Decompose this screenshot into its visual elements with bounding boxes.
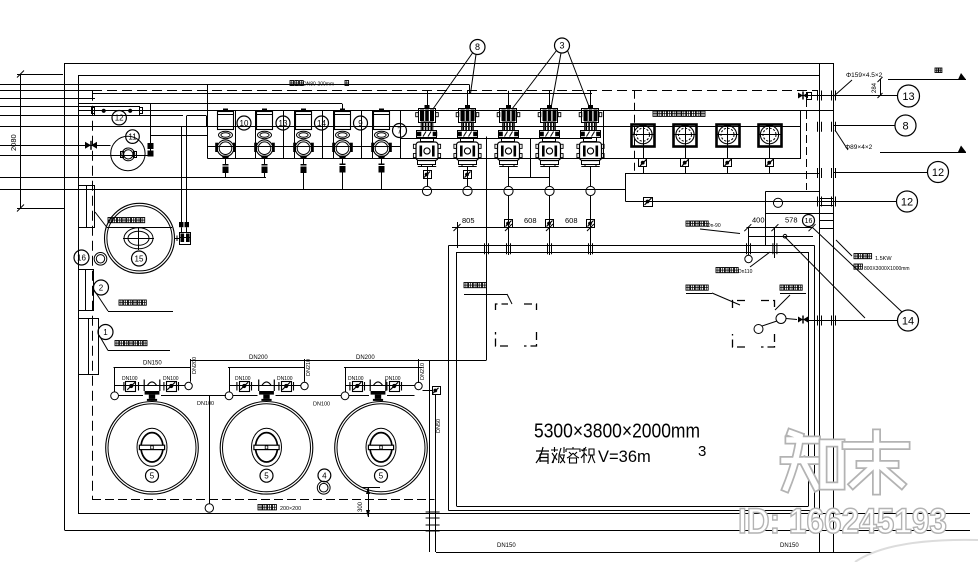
- callout 8 top: [433, 40, 485, 110]
- pump B5 joint: [586, 167, 595, 196]
- svg-text:5300×3800×2000mm: 5300×3800×2000mm: [534, 420, 700, 443]
- dashed enclosure bottom: [92, 499, 435, 501]
- header DN260: [344, 355, 423, 368]
- callout 13: [898, 85, 920, 107]
- pump B2 valve+joint: [463, 167, 472, 196]
- riser DN240: [419, 359, 427, 383]
- pump B3 riser: [505, 196, 513, 255]
- svg-text:15: 15: [135, 254, 144, 263]
- svg-text:Φ159×4.5×2: Φ159×4.5×2: [846, 72, 883, 79]
- pipe stub y145: [0, 145, 111, 147]
- UV inner assembly: [123, 227, 154, 250]
- svg-text:DN100: DN100: [348, 376, 364, 382]
- heat exchanger HX4: [758, 124, 782, 147]
- svg-text:2: 2: [99, 283, 104, 292]
- label circle 14a: [315, 116, 329, 130]
- supply pipe 1 text: [846, 72, 883, 79]
- overflow label: [716, 252, 770, 275]
- HX1 valve: [639, 146, 647, 174]
- dim 284: [872, 77, 883, 98]
- svg-text:Φ89×4×2: Φ89×4×2: [845, 144, 873, 151]
- callout 14: [898, 310, 919, 331]
- riser DN200: [191, 357, 199, 382]
- label circle 5-2: [260, 469, 273, 482]
- svg-text:DN100: DN100: [385, 376, 401, 382]
- svg-text:14: 14: [317, 119, 326, 128]
- inlet label: [686, 221, 740, 234]
- pump P2 drain: [260, 159, 269, 178]
- pipe row bottom y158.5: [208, 158, 801, 160]
- wall outer top: [64, 63, 834, 65]
- dim 300: [358, 487, 380, 517]
- pipe to callout 12a: [818, 168, 928, 178]
- pump B5 riser: [587, 196, 595, 255]
- dimension 2080 line: [9, 71, 24, 212]
- tank T1 lower run: [119, 395, 226, 397]
- leader 14-pit: [812, 227, 902, 312]
- UV feed valve 2: [185, 222, 190, 227]
- drain pipe right: [423, 387, 441, 553]
- svg-text:578: 578: [785, 216, 798, 225]
- svg-text:DN150: DN150: [143, 361, 162, 367]
- callout 3 top: [512, 38, 590, 109]
- pit right label: [686, 285, 740, 305]
- valve on y145: [85, 141, 97, 150]
- svg-text:12: 12: [115, 114, 124, 123]
- pump P3 drain: [299, 159, 308, 190]
- svg-text:DN100: DN100: [197, 401, 214, 407]
- svg-text:3: 3: [559, 41, 564, 51]
- UV feed vertical pair: [182, 116, 187, 222]
- UV sterilizer U15: [105, 203, 175, 273]
- pipe y93.5 feed: [92, 93, 592, 95]
- label circle 16b: [803, 215, 815, 227]
- wall outer bottom: [65, 530, 971, 532]
- pump B4 (vertical multistage): [536, 91, 563, 167]
- pipe to callout 14: [809, 316, 898, 326]
- svg-text:12: 12: [901, 196, 913, 208]
- heat exchanger HX1: [632, 124, 655, 147]
- leader pipe1: [834, 80, 852, 96]
- wall outer left: [64, 64, 66, 531]
- pump P4 drain: [338, 159, 347, 190]
- tank size text: [534, 420, 700, 443]
- drain texts bottom: [497, 543, 799, 549]
- supply pipe 2 text: [845, 144, 873, 151]
- bottom line dn150: [436, 552, 970, 554]
- dimension ext bottom: [17, 208, 65, 210]
- floor drain pair: [317, 481, 330, 494]
- pump P1 (small): [215, 109, 236, 159]
- suction pit right: [733, 301, 775, 348]
- pump row band verticals: [208, 111, 401, 159]
- drain collector y189: [0, 189, 626, 191]
- pump B3 (vertical multistage): [495, 91, 522, 167]
- wall inner left: [78, 75, 80, 514]
- label circle 1: [98, 325, 113, 340]
- manhole label: [775, 285, 806, 310]
- pipe to callout 13: [798, 91, 898, 101]
- svg-text:DN80-200mm: DN80-200mm: [303, 82, 334, 88]
- pipe jog y115.7-126.8: [187, 116, 207, 127]
- svg-text:5: 5: [264, 472, 269, 481]
- svg-text:7: 7: [397, 126, 402, 135]
- pipe stub y98: [0, 98, 95, 100]
- label circle 15: [132, 251, 147, 266]
- pipe manifold y127: [0, 126, 801, 128]
- label circle 5-1: [146, 469, 159, 482]
- watermark ID: [738, 502, 947, 541]
- water tank T2: [220, 402, 313, 495]
- wall right inner line: [833, 64, 835, 553]
- label circle 13a: [276, 116, 290, 130]
- label circle 10: [237, 116, 251, 130]
- svg-text:1.5KW: 1.5KW: [875, 256, 892, 262]
- pump B4 joint: [545, 167, 554, 196]
- svg-text:16: 16: [77, 253, 86, 262]
- svg-text:10: 10: [240, 119, 249, 128]
- svg-text:3: 3: [698, 443, 706, 460]
- svg-text:Dn-90: Dn-90: [707, 223, 721, 229]
- panel 2 label: [94, 290, 173, 312]
- label circle 4: [318, 469, 331, 482]
- panel box top: [79, 185, 95, 228]
- svg-text:800X3000X1000mm: 800X3000X1000mm: [864, 266, 910, 272]
- svg-text:DN210: DN210: [420, 363, 426, 380]
- supply arrow 2: [880, 146, 966, 153]
- label circle 12a: [112, 111, 126, 125]
- pipe y173: [626, 173, 820, 175]
- pump P5 (small): [371, 109, 392, 159]
- vertical x150 with valves: [148, 104, 154, 157]
- pipe to callout 8: [818, 122, 895, 132]
- pipe stub y116: [0, 115, 183, 117]
- drain sleeve bottom: [426, 512, 440, 531]
- tank fill pipe: [485, 137, 489, 361]
- svg-text:DN150: DN150: [780, 543, 799, 549]
- tank T2 lower run: [233, 395, 341, 397]
- squares band box: [604, 111, 801, 159]
- pump B2 (vertical multistage): [454, 91, 481, 167]
- foot valve assembly: [754, 314, 808, 334]
- HX2 valve: [681, 146, 689, 174]
- header DN200: [228, 355, 305, 368]
- svg-text:DN210: DN210: [306, 359, 312, 376]
- UV feed drop: [182, 227, 187, 232]
- svg-text:Dn110: Dn110: [738, 269, 753, 275]
- pump power label: [836, 240, 910, 272]
- header DN150: [114, 361, 191, 368]
- drain pipe T2: [197, 396, 214, 512]
- svg-text:DN100: DN100: [235, 376, 251, 382]
- pump B4 riser: [546, 196, 554, 255]
- flow meter M1: [92, 107, 143, 116]
- platform structure: [766, 191, 820, 246]
- tank T3 inlet assembly: [341, 367, 422, 401]
- svg-text:5: 5: [150, 472, 155, 481]
- svg-text:DN100: DN100: [313, 402, 330, 408]
- pump P1 drain: [221, 159, 230, 178]
- svg-text:DN100: DN100: [277, 376, 293, 382]
- pump P3 (small): [293, 109, 314, 159]
- overflow pipe right: [429, 361, 431, 552]
- label circle 16: [74, 250, 89, 265]
- svg-text:DN100: DN100: [122, 376, 138, 382]
- tank outer: [449, 246, 815, 511]
- watermark swoosh: [855, 540, 978, 562]
- text supply header: [290, 81, 349, 88]
- water tank T1: [106, 402, 199, 495]
- UV label leader: [95, 212, 172, 228]
- heat exchanger HX3: [716, 124, 740, 147]
- riser DN210: [305, 359, 313, 382]
- svg-text:13: 13: [902, 91, 914, 103]
- UV inlet fitting: [175, 233, 191, 245]
- pump B1 (vertical multistage): [413, 91, 440, 167]
- pipe y84.8 long: [0, 85, 470, 94]
- svg-text:14: 14: [902, 315, 914, 327]
- DN50 text: [436, 419, 442, 433]
- svg-text:DN100: DN100: [163, 376, 179, 382]
- pipe row suction y146.7: [208, 146, 401, 148]
- pump P5 drain: [377, 159, 386, 190]
- pump B1 valve+joint: [422, 167, 431, 196]
- svg-text:DN200: DN200: [192, 357, 198, 374]
- pipe bigpump suction y138.5: [400, 138, 592, 140]
- dashed enclosure top: [92, 90, 818, 92]
- svg-text:300: 300: [358, 501, 364, 512]
- tank inlet pipe: [745, 228, 813, 263]
- label circle 7: [393, 124, 407, 138]
- svg-text:400: 400: [752, 216, 765, 225]
- panel box 2: [79, 270, 94, 311]
- label circle 11: [126, 130, 140, 144]
- label circle 9: [354, 116, 368, 130]
- svg-text:2080: 2080: [9, 134, 18, 151]
- tank inner: [457, 252, 809, 507]
- svg-text:200×200: 200×200: [280, 506, 301, 512]
- callout 8 right: [895, 115, 916, 136]
- heat exchanger HX2: [674, 124, 697, 147]
- DN100 labels row: [122, 376, 401, 382]
- callout 12a: [928, 162, 949, 183]
- svg-text:5: 5: [379, 472, 384, 481]
- drain channel text: [258, 505, 301, 513]
- dashed enclosure left: [92, 91, 94, 499]
- callout 12b: [897, 191, 918, 212]
- svg-text:16: 16: [805, 218, 813, 225]
- dim line 805/608: [452, 216, 594, 248]
- supply arrow 1: [888, 68, 966, 80]
- pipe stub y106: [0, 106, 95, 108]
- pipe stub y156: [0, 155, 151, 157]
- panel box 1: [79, 319, 99, 375]
- svg-text:4: 4: [322, 471, 327, 480]
- watermark zhi-mo: [784, 433, 906, 491]
- pump P2 (small): [254, 109, 275, 159]
- label circle 2: [94, 280, 109, 295]
- svg-text:12: 12: [932, 167, 944, 179]
- svg-text:608: 608: [524, 216, 537, 225]
- HX3 valve: [724, 146, 732, 174]
- svg-text:13: 13: [279, 119, 288, 128]
- tank T2 inlet assembly: [225, 367, 308, 401]
- svg-text:9: 9: [358, 119, 363, 128]
- UV label text: [108, 218, 145, 223]
- tank T3 lower run: [349, 395, 415, 397]
- pipe vertical x625: [625, 173, 627, 202]
- pipe to callout 12b: [818, 197, 836, 207]
- wall ladder rungs: [820, 199, 834, 229]
- svg-text:284: 284: [872, 82, 878, 93]
- valve on y201: [644, 198, 653, 207]
- HX4 valve: [766, 146, 774, 174]
- wall right outer line: [819, 64, 821, 553]
- pipe y135 stub: [151, 135, 208, 137]
- svg-text:608: 608: [565, 216, 578, 225]
- svg-text:DN150: DN150: [497, 543, 516, 549]
- pipe stub y90: [0, 90, 92, 92]
- pipe y103.8: [78, 104, 343, 111]
- panel 1 label: [99, 335, 170, 351]
- squares band label: [653, 111, 705, 116]
- svg-text:8: 8: [475, 42, 480, 52]
- svg-text:ID: 166245193: ID: 166245193: [738, 502, 947, 541]
- svg-text:8: 8: [902, 120, 908, 132]
- dashed vertical x634: [634, 91, 636, 173]
- pump B5 (vertical multistage): [577, 91, 604, 167]
- dashed vertical x806: [806, 99, 808, 190]
- svg-text:DN50: DN50: [436, 419, 442, 433]
- small gauge pair: [94, 252, 107, 265]
- leader pipe2: [835, 130, 848, 150]
- svg-text:805: 805: [462, 216, 475, 225]
- pit left label: [464, 283, 512, 305]
- water tank T3: [335, 402, 428, 495]
- svg-text:V=36m: V=36m: [598, 448, 651, 466]
- drain collector y177: [0, 177, 266, 179]
- tank fill out: [0, 0, 1, 1]
- label circle 5-3: [375, 469, 388, 482]
- valve near wall 13: [798, 92, 812, 100]
- pump B3-B4 tie: [509, 139, 550, 178]
- pipe long y110.4: [78, 110, 834, 112]
- suction pit left: [496, 304, 537, 346]
- svg-text:1: 1: [103, 328, 108, 337]
- circulation pump P11: [111, 136, 145, 170]
- tank T1 inlet assembly: [111, 367, 193, 401]
- UV feed valve 1: [179, 222, 184, 227]
- label DN110 mid: [313, 402, 330, 408]
- dimension ext top: [17, 74, 63, 76]
- tank volume text: [536, 443, 706, 466]
- dim line 400/578: [744, 216, 815, 232]
- pump P4 (small): [332, 109, 353, 159]
- pipe y201: [626, 201, 897, 203]
- pump B3 joint: [504, 167, 513, 196]
- leader overflow-14: [785, 237, 865, 318]
- wall inner bottom: [78, 513, 970, 515]
- wall inner top: [78, 75, 820, 77]
- supply line y359: [190, 360, 487, 362]
- vertical x207: [207, 85, 209, 159]
